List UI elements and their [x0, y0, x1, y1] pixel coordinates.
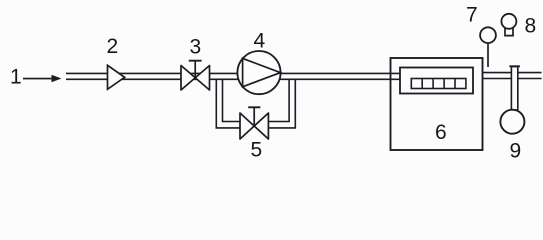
svg-text:1: 1 [10, 66, 22, 89]
meter 6 (gas meter housing) [391, 58, 483, 150]
valve 5 (bypass valve with stem) [240, 107, 268, 139]
pump 4 (circle with inscribed triangle) [237, 51, 280, 94]
wire: bypass loop right leg [268, 80, 295, 128]
flow arrow into pipe [23, 75, 62, 82]
svg-text:7: 7 [466, 4, 478, 27]
wire: outlet pipe right of meter (double line) [482, 73, 542, 79]
wire: main supply pipe (double line) [66, 73, 401, 79]
wire: bypass loop left leg [216, 80, 240, 128]
indicator 8 (bulb circle) [501, 14, 516, 29]
svg-text:6: 6 [435, 121, 447, 144]
bubbler 9 (circle) [500, 110, 524, 134]
valve 3 (shut-off valve with stem) [181, 61, 210, 90]
indicator 8 base [505, 28, 513, 36]
svg-text:3: 3 [190, 35, 202, 58]
meter 6 counter cells [411, 79, 466, 89]
svg-text:2: 2 [107, 35, 119, 58]
svg-text:5: 5 [251, 138, 263, 161]
svg-text:9: 9 [510, 140, 522, 163]
gauge 7 (pressure gauge circle) [480, 27, 496, 43]
svg-text:4: 4 [254, 30, 266, 53]
gauge 7 stem [487, 43, 489, 67]
meter 6 display window [400, 68, 473, 94]
valve 2 (check valve triangle) [108, 65, 125, 89]
tube to bubbler (vertical connection) [509, 66, 520, 110]
svg-text:8: 8 [525, 14, 537, 37]
